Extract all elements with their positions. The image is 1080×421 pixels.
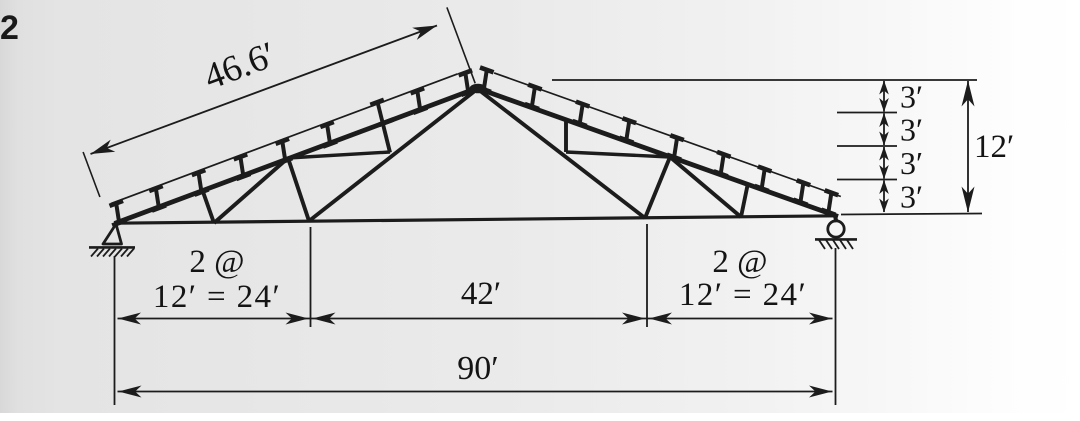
roof line left (purlin top line) bbox=[111, 74, 458, 204]
roof line right (purlin top line) bbox=[494, 73, 841, 197]
purlin R9 (I-beam on top chord) bbox=[821, 190, 838, 215]
extension line at 24 ft node bbox=[310, 227, 312, 327]
purlin R6 (I-beam on top chord) bbox=[714, 152, 731, 177]
svg-text:2 @: 2 @ bbox=[189, 244, 244, 280]
extension line below right support bbox=[835, 248, 837, 405]
12 ft dimension line bbox=[962, 81, 975, 213]
roller joint stem bbox=[835, 216, 837, 222]
svg-text:90′: 90′ bbox=[457, 350, 498, 387]
top reference line at apex level bbox=[552, 79, 977, 81]
purlin L3 (I-beam on top chord) bbox=[192, 170, 209, 195]
roller support hatching bbox=[819, 240, 853, 249]
strut K-P2 bbox=[564, 119, 568, 152]
arrowhead 46.6 upper-right bbox=[412, 26, 437, 40]
arrowhead at left end bbox=[118, 313, 141, 325]
arrowhead 46.6 lower-left bbox=[91, 140, 116, 154]
truss bottom chord A-F bbox=[114, 216, 838, 223]
extension line at 66 ft node bbox=[646, 224, 648, 327]
arrowhead at right end bbox=[809, 313, 832, 325]
purlin L7 flanges (at joint J) bbox=[370, 100, 393, 125]
arrowhead right of 24ft node bbox=[313, 313, 336, 325]
arrowhead right of 66ft node bbox=[649, 313, 672, 325]
purlin R7 (I-beam on top chord) bbox=[755, 167, 772, 192]
diagonal D-L bbox=[645, 157, 670, 218]
arrowhead 90ft right bbox=[809, 386, 832, 398]
3 ft dimension arrow segment 4 bbox=[879, 180, 889, 213]
roller support at F (circle) bbox=[828, 221, 844, 237]
strut J-P1 merged with purlin stem bbox=[378, 102, 391, 153]
truss top chord right G-F bbox=[476, 88, 838, 217]
purlin R8 (I-beam on top chord) bbox=[793, 180, 810, 205]
tick line at 6 ft height level bbox=[837, 145, 897, 147]
diagonal B-I bbox=[214, 158, 288, 223]
long diagonal C-G bbox=[309, 89, 478, 222]
extension line below left support bbox=[114, 256, 116, 405]
purlin L2 (I-beam on top chord) bbox=[149, 186, 166, 211]
arrowhead 90ft left bbox=[119, 386, 142, 398]
arrowhead left of 66ft node bbox=[622, 313, 645, 325]
purlin R2 (I-beam on top chord) bbox=[525, 85, 542, 109]
diagonal L-E bbox=[670, 157, 741, 217]
3 ft dimension arrow segment 2 bbox=[879, 113, 889, 146]
pin support at A (triangle) bbox=[103, 224, 122, 244]
bottom reference line at support level bbox=[841, 214, 982, 215]
tick line at 3 ft height level bbox=[837, 112, 897, 114]
arrowhead left of 24ft node bbox=[286, 313, 309, 325]
purlin R3 (I-beam on top chord) bbox=[573, 102, 590, 127]
svg-text:2 @: 2 @ bbox=[712, 244, 767, 280]
svg-text:3′: 3′ bbox=[900, 111, 923, 147]
svg-text:12′ = 24′: 12′ = 24′ bbox=[679, 277, 807, 313]
extension line at apex for 46.6 dim bbox=[447, 7, 475, 83]
pin support hatching bbox=[91, 249, 134, 257]
horizontal tie I-P1 bbox=[288, 152, 390, 158]
svg-text:3′: 3′ bbox=[900, 178, 923, 214]
apex joint G bbox=[470, 84, 487, 94]
extension line at left support for 46.6 dim bbox=[83, 152, 100, 197]
svg-text:42′: 42′ bbox=[461, 276, 501, 312]
dimension line 90 ft bbox=[118, 391, 833, 393]
svg-text:12′: 12′ bbox=[974, 129, 1014, 165]
strut B-H bbox=[202, 189, 214, 223]
3 ft dimension arrow segment 1 bbox=[879, 81, 889, 113]
purlin L8 (I-beam on top chord) bbox=[459, 70, 476, 95]
svg-text:2: 2 bbox=[0, 9, 19, 47]
tick line at 9 ft height level bbox=[837, 179, 897, 181]
truss top chord left A-G bbox=[115, 88, 479, 224]
svg-text:3′: 3′ bbox=[900, 78, 923, 114]
chained dimension line 24-42-24 bbox=[118, 318, 833, 320]
roller support ground line bbox=[815, 238, 857, 241]
svg-text:12′ = 24′: 12′ = 24′ bbox=[153, 279, 281, 315]
purlin L5 (I-beam on top chord) bbox=[276, 139, 293, 164]
purlin L7 (I-beam on top chord) bbox=[411, 88, 428, 113]
purlin R5 (I-beam on top chord) bbox=[667, 135, 684, 159]
horizontal tie P2-L bbox=[566, 152, 670, 157]
long diagonal G-D bbox=[477, 89, 645, 219]
purlin L6 (I-beam on top chord) bbox=[320, 122, 337, 147]
purlin R1 (I-beam on top chord) bbox=[477, 67, 494, 92]
strut E-M bbox=[741, 183, 748, 217]
diagonal I-C bbox=[288, 158, 309, 221]
purlin R4 (I-beam on top chord) bbox=[619, 118, 636, 142]
svg-text:3′: 3′ bbox=[900, 145, 923, 181]
purlin L1 (I-beam on top chord) bbox=[110, 201, 127, 226]
pin support ground line bbox=[89, 246, 135, 249]
3 ft dimension arrow segment 3 bbox=[879, 147, 889, 180]
dimension line 46.6 ft bbox=[91, 26, 438, 155]
purlin L4 (I-beam on top chord) bbox=[234, 154, 251, 179]
